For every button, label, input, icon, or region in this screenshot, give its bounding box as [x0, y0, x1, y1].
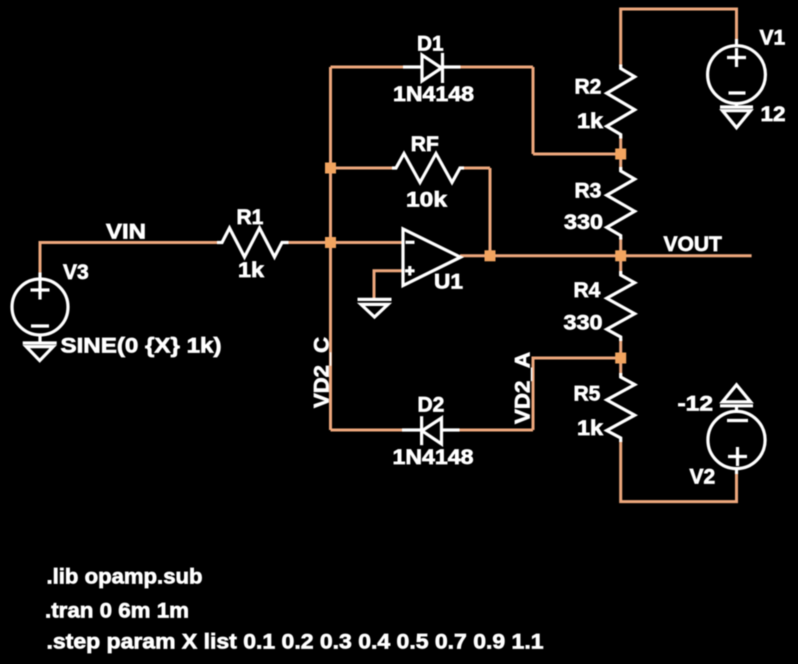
wire D1 row: [331, 66, 534, 69]
label R4: [574, 279, 601, 302]
junction VOUT node R3/R4: [615, 250, 626, 261]
wire VOUT: [621, 254, 752, 257]
svg-text:D2: D2: [418, 394, 445, 417]
svg-text:-12: -12: [678, 393, 714, 416]
wire VIN row: V3 up and across to R1: [40, 243, 218, 273]
wire R1 to op-amp inverting input: [288, 241, 403, 244]
ground V1: [720, 104, 753, 128]
wire between R4 and R5: [619, 339, 622, 377]
value -12 (V2): [678, 393, 714, 416]
label D1: [417, 33, 444, 56]
label V3: [63, 261, 89, 284]
label D2: [418, 394, 445, 417]
value 1k (R5): [577, 417, 603, 440]
wire between R2 and R3: [619, 135, 622, 171]
svg-text:VOUT: VOUT: [664, 233, 723, 256]
svg-text:.step param X list 0.1 0.2 0.3: .step param X list 0.1 0.2 0.3 0.4 0.5 0…: [47, 631, 544, 654]
value SINE(0 {X} 1k): [61, 335, 222, 358]
ground V2: [720, 385, 753, 412]
svg-text:1N4148: 1N4148: [393, 446, 474, 469]
value 1k (R2): [577, 110, 603, 133]
svg-text:RF: RF: [411, 133, 439, 156]
label R1: [237, 206, 264, 229]
value 1k (R1): [238, 259, 264, 282]
svg-text:1k: 1k: [577, 110, 603, 133]
net label VIN: [106, 221, 146, 244]
svg-text:12: 12: [761, 103, 786, 126]
resistor R5: [607, 373, 635, 442]
svg-text:U1: U1: [434, 271, 463, 294]
svg-text:SINE(0 {X} 1k): SINE(0 {X} 1k): [61, 335, 222, 358]
diode D2: [402, 416, 460, 445]
svg-text:.tran 0 6m 1m: .tran 0 6m 1m: [45, 600, 189, 623]
svg-text:D1: D1: [417, 33, 444, 56]
label V1: [760, 27, 786, 50]
wire op-amp non-inverting input to ground: [374, 271, 403, 299]
value 330 (R3): [564, 211, 603, 234]
wire RF right down to output: [489, 168, 492, 256]
svg-text:1k: 1k: [577, 417, 603, 440]
svg-text:VD2_A: VD2_A: [512, 352, 535, 424]
wire op-amp output row: [460, 254, 621, 257]
resistor RF: [392, 154, 464, 183]
diode D1: [403, 53, 461, 83]
value 1N4148 (D1): [393, 83, 474, 106]
svg-text:R1: R1: [237, 206, 264, 229]
svg-text:330: 330: [564, 211, 603, 234]
svg-text:R3: R3: [575, 180, 602, 203]
label U1: [434, 271, 463, 294]
junction R4/R5/D2: [615, 353, 626, 364]
svg-text:VIN: VIN: [106, 221, 146, 244]
wire between R3 and R4: [619, 238, 622, 276]
svg-text:R5: R5: [574, 383, 601, 406]
svg-text:1k: 1k: [238, 259, 264, 282]
op-amp U1: [403, 229, 461, 286]
ground op-amp non-inverting input: [358, 299, 392, 317]
voltage source V2: [708, 411, 765, 474]
wire D1 cathode down: [532, 67, 535, 154]
svg-text:R2: R2: [575, 76, 602, 99]
svg-text:R4: R4: [574, 279, 601, 302]
svg-text:V2: V2: [690, 466, 716, 489]
net label VD2_C: [311, 337, 334, 408]
label R3: [575, 180, 602, 203]
label R2: [575, 76, 602, 99]
svg-text:330: 330: [564, 312, 603, 335]
junction RF left / left column: [325, 163, 336, 174]
wire RF row: [331, 167, 491, 170]
junction op-amp output / RF right: [485, 250, 496, 261]
value 1N4148 (D2): [393, 446, 474, 469]
svg-text:VD2_C: VD2_C: [311, 337, 334, 408]
wire D2 anode up to R4/R5 junction: [533, 358, 621, 430]
label R5: [574, 383, 601, 406]
net label VD2_A: [512, 352, 535, 424]
directive .tran: [45, 600, 189, 623]
label RF: [411, 133, 439, 156]
svg-text:V1: V1: [760, 27, 786, 50]
value 12 (V1): [761, 103, 786, 126]
svg-text:1N4148: 1N4148: [393, 83, 474, 106]
voltage source V1: [708, 39, 766, 104]
net label VOUT: [664, 233, 723, 256]
wire D2 row: [331, 429, 534, 432]
wire D1 cathode to R2/R3 junction: [533, 153, 621, 156]
wire left column (inverting node down to D2): [329, 67, 332, 430]
resistor R1: [217, 228, 289, 257]
resistor R3: [607, 167, 635, 240]
directive .lib: [47, 566, 203, 589]
ground V3: [23, 334, 57, 361]
junction R2/R3/D1: [615, 149, 626, 160]
svg-text:V3: V3: [63, 261, 89, 284]
resistor R4: [607, 271, 635, 341]
voltage source V3: [12, 273, 68, 336]
svg-text:10k: 10k: [406, 189, 447, 212]
label V2: [690, 466, 716, 489]
resistor R2: [607, 65, 635, 139]
svg-text:.lib opamp.sub: .lib opamp.sub: [47, 566, 203, 589]
directive .step: [47, 631, 544, 654]
value 330 (R4): [564, 312, 603, 335]
wire R5 bottom loop to V2: [621, 441, 737, 502]
junction inverting node (R1/left column): [325, 237, 336, 248]
value 10k (RF): [406, 189, 447, 212]
wire top loop V1 to R2: [621, 9, 737, 66]
